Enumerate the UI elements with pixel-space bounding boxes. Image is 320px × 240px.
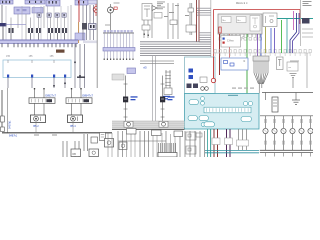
fuse F2 box inside — [237, 17, 247, 23]
amplifier sub-circuit box — [142, 4, 152, 21]
wire below connector X3 — [38, 33, 40, 40]
page F ribbon cable — [158, 143, 160, 153]
lamp L1 drop wire upper — [265, 116, 267, 128]
ECU circle pair lower — [201, 123, 205, 127]
connector dot right b — [79, 75, 81, 77]
gray label specks above ECU box — [232, 88, 236, 89]
terminal bar of B5.2 — [29, 98, 55, 104]
terminal ladder base box — [164, 88, 172, 95]
ECU pin pill 2 — [188, 116, 198, 121]
page B bottom sheet edge — [97, 128, 184, 130]
wire vertical right cluster 3 — [89, 5, 91, 40]
ladder mid rail — [260, 115, 313, 117]
svg-text:ElfB4TxT: ElfB4TxT — [82, 93, 93, 97]
lamp L6 lower connector — [310, 141, 312, 144]
wire blue pair vertical b — [274, 28, 276, 53]
wire below connector X5 — [57, 33, 59, 40]
wire above lamp symbol — [110, 4, 112, 7]
wire navy curve a — [290, 13, 297, 53]
relay page left edge — [7, 88, 9, 133]
page A top terminal-bus segment 4 — [75, 0, 88, 5]
bus segment 1 fuse ticks — [2, 1, 3, 3]
ignition switch symbol (red circle-X) — [93, 7, 99, 13]
svg-text:C Hnn: C Hnn — [227, 41, 234, 43]
op-amp triangle — [152, 6, 157, 11]
page F corner speck — [196, 133, 202, 137]
page F wire verticals mid — [117, 131, 119, 157]
wire above connector X1 — [10, 18, 12, 29]
page F label box 1 — [127, 129, 137, 135]
feed wires above B5.4 — [71, 89, 73, 98]
wire vertical fine set — [5, 6, 7, 40]
harness bundle stub mid right — [199, 32, 211, 34]
wire vertical from K1 pin 2 — [25, 14, 27, 40]
wire pink vertical — [229, 34, 231, 58]
lamp L4 bulb circle — [290, 128, 295, 133]
lamp L3 bulb circle — [281, 128, 286, 133]
wire vertical pair right — [189, 3, 191, 35]
ground splice comb header — [253, 56, 269, 61]
terminal ladder component — [165, 70, 167, 92]
sensor blue square 1 — [189, 69, 194, 73]
page E row lines — [302, 28, 313, 30]
branch 1 tick low — [124, 116, 128, 118]
lamp symbol circle top — [108, 7, 114, 13]
connector block right cluster — [82, 23, 87, 30]
wire teal vertical drop — [286, 19, 288, 54]
wire verticals under amplifier — [143, 20, 145, 38]
label speck center 2 — [175, 5, 179, 6]
branch 2 tick top — [161, 83, 165, 85]
lamp L2 connector tick — [274, 120, 276, 123]
ECU pin pill 3 — [199, 116, 209, 121]
footer speck 1 — [34, 135, 39, 136]
ECU circle pair upper — [201, 97, 205, 101]
wire above connector X5 — [57, 18, 59, 29]
junction box small left of wires 1 — [186, 132, 196, 140]
lamp L6 drop wire lower — [310, 134, 312, 150]
page F horizontal link — [118, 140, 166, 142]
page B header label specks — [114, 3, 120, 4]
relay B5.4 body — [68, 115, 83, 123]
junction box small left of wires 2 — [186, 146, 196, 154]
feed wire pair from bundle down a — [152, 56, 154, 122]
svg-text:B4B7b1: B4B7b1 — [9, 136, 18, 138]
harness box top tick 3 — [53, 60, 55, 63]
ground bars small upper — [290, 60, 299, 62]
page F wire verticals left group — [62, 141, 64, 157]
svg-text:155: 155 — [50, 55, 55, 58]
wire from battery bus — [2, 26, 4, 40]
relay B5.2 body — [31, 115, 46, 123]
relay K2 lavender box — [32, 8, 43, 14]
page F junction box DB — [71, 149, 81, 157]
terminal bar of B5.4 — [66, 98, 92, 104]
svg-text:B5.2: B5.2 — [33, 124, 39, 128]
relay K1 lavender box — [14, 7, 30, 14]
wire below connector X6 — [64, 33, 66, 40]
harness outline box (light blue) — [3, 60, 71, 78]
wires bar to relay B5.2 — [34, 103, 36, 115]
page F component column — [100, 133, 106, 141]
wire vertical right cluster 4 — [93, 5, 95, 40]
wire red supply vertical — [78, 0, 80, 22]
connector block right cluster 2 — [89, 24, 97, 30]
lamp L2 drop wire lower — [274, 134, 276, 150]
branch 2 tick mid — [161, 108, 165, 110]
page F small box upper — [91, 137, 98, 143]
wire red drop into sensor block — [213, 57, 215, 78]
junction box right cluster lavender top — [75, 33, 85, 40]
small relay far right upper — [277, 57, 284, 70]
inline connector purple pair — [225, 138, 233, 145]
svg-text:ElfB2TxT: ElfB2TxT — [45, 93, 56, 97]
lamp L2 drop wire upper — [274, 116, 276, 128]
switch S2 black square — [160, 97, 165, 103]
wire blue vertical — [260, 34, 262, 56]
lamp L3 lower connector — [283, 141, 285, 144]
wire teal horizontal — [277, 18, 313, 20]
lamp L4 lower connector — [292, 141, 294, 144]
lamp L5 bulb circle — [299, 128, 304, 133]
ground rail teal double bottom — [205, 150, 259, 152]
wire navy curve b — [293, 13, 300, 53]
svg-text:nfD: nfD — [143, 67, 147, 70]
lamp L4 drop wire lower — [292, 134, 294, 150]
lamp L5 lower connector — [301, 141, 303, 144]
wire blue pair vertical a — [270, 28, 272, 53]
ECU label top right — [228, 95, 238, 96]
wire dark red pair far right of page C — [196, 0, 198, 42]
fuse element red mark — [219, 27, 221, 33]
red terminal circle — [211, 78, 215, 82]
fuse holder S2 — [47, 13, 51, 17]
red indicator mark — [114, 7, 117, 9]
lamp L5 connector tick — [301, 120, 303, 123]
connector strip drops below — [214, 53, 216, 56]
wire below lamp symbol — [110, 13, 112, 33]
ground motor symbol box 2 — [159, 121, 168, 127]
wire gray group below ECU — [238, 129, 240, 150]
wire dark-red vertical (battery) — [219, 34, 221, 75]
battery bus bar (dark blue) — [0, 23, 7, 26]
pin label row under fuse box — [219, 38, 222, 41]
connector pair X4 — [48, 28, 50, 33]
wire maroon pair below ECU b — [217, 129, 219, 157]
fuse mark F2 on strip — [52, 1, 53, 4]
lamp L1 lower connector — [265, 141, 267, 144]
bus bar right gray segment — [83, 41, 97, 44]
ECU pin pill 1 — [189, 100, 199, 105]
harness box blue pin 1 — [7, 75, 9, 78]
component box right margin — [287, 62, 298, 71]
junction dots row — [144, 34, 145, 35]
terminal strip dark connector — [56, 50, 65, 53]
ground splice comb teeth — [253, 61, 255, 73]
connector pair X3 — [36, 28, 38, 33]
page B/C/D white sheet — [97, 0, 313, 157]
header rail terminal boxes — [104, 30, 106, 32]
svg-text:C: C — [244, 60, 246, 63]
fuse-relay box pin ticks — [219, 34, 221, 37]
connector pair X5 — [55, 28, 57, 33]
page F box with e symbol — [105, 139, 114, 148]
feed wire pair from bundle down b — [155, 56, 157, 122]
wire teal pair below ECU a — [207, 129, 209, 157]
fuse mark F1 on strip — [49, 1, 50, 4]
connector box right — [186, 25, 196, 32]
inline connector maroon pair — [212, 138, 220, 145]
wire vertical x44 — [43, 6, 45, 28]
svg-text:Omn 1 ×: Omn 1 × — [236, 1, 248, 5]
connector pair X1 — [8, 28, 10, 33]
wire teal pair below ECU b — [210, 129, 212, 157]
page B left sheet edge — [96, 0, 98, 130]
connector pair X2 — [28, 28, 30, 33]
wire purple pair below ECU b — [229, 129, 231, 157]
svg-text:DB: DB — [73, 153, 77, 156]
ladder top rail — [262, 92, 313, 94]
wire above connector X4 — [50, 18, 52, 29]
ladder bottom ground rail double — [260, 149, 313, 151]
page A top terminal-bus segment 5 — [88, 0, 97, 4]
wires below harness box — [7, 78, 9, 89]
wire drop from top rail — [265, 93, 267, 101]
wire vertical left — [1, 5, 3, 23]
branch 1 tick top — [124, 83, 128, 85]
page E dark component box — [302, 18, 310, 24]
bus segment 2 fuse ticks — [29, 1, 30, 3]
lamp L3 drop wire lower — [283, 134, 285, 150]
wire violet vertical — [257, 34, 259, 56]
ground symbol right — [292, 99, 300, 101]
lamp L2 bulb circle — [272, 128, 277, 133]
sensor small comp — [200, 77, 207, 83]
main distribution bus bar (lavender) — [0, 40, 78, 43]
ECU block (teal filled box) — [185, 94, 260, 130]
page F label box 3 — [174, 131, 183, 137]
wire tan supply vertical lower — [78, 22, 80, 43]
wire magenta vertical — [293, 11, 295, 30]
ground bars below right margin box — [290, 73, 297, 75]
wire green vertical — [246, 34, 248, 94]
label speck center — [169, 12, 174, 13]
label speck center 3 — [164, 16, 168, 17]
resistor box center — [170, 20, 177, 25]
outer bus connector box 2 — [1, 127, 5, 132]
fuse holder S1 — [37, 13, 41, 17]
page A top terminal-bus segment 2 — [25, 0, 45, 4]
page D left sheet edge — [210, 0, 212, 157]
page E header text specks — [303, 1, 312, 2]
harness box top tick 1 — [7, 60, 9, 63]
bus terminal drops — [1, 43, 3, 47]
svg-text:B4B7b1: B4B7b1 — [9, 120, 12, 129]
lamp L6 bulb circle — [308, 128, 313, 133]
lamp L4 connector tick — [292, 120, 294, 123]
harness box blue pin 3 — [53, 75, 55, 78]
blue pin label below harness box — [44, 91, 50, 92]
wire stub above ignition switch — [95, 4, 97, 7]
lamp L3 connector tick — [283, 120, 285, 123]
svg-text:B5.4: B5.4 — [70, 124, 76, 128]
terminal ladder blue label — [163, 96, 170, 97]
wire below connector X1 — [10, 33, 12, 40]
lamp L6 drop wire upper — [310, 116, 312, 128]
harness bundle main (7 gray wires) — [140, 41, 211, 43]
wire below connector X4 — [50, 33, 52, 40]
lamp L2 lower connector — [274, 141, 276, 144]
harness box blue pin 4 — [64, 75, 66, 78]
connector pair X6 — [62, 28, 64, 33]
branch 1 tick mid — [124, 108, 128, 110]
ECU circle pair right — [243, 101, 247, 105]
connector dash right — [77, 77, 85, 78]
sensor block outline (white box) — [185, 57, 216, 94]
relay page outer bus wire — [1, 90, 3, 131]
wire below connector X2 — [30, 33, 32, 40]
lamp L1 connector tick — [265, 120, 267, 123]
fuse mark F3 on strip — [56, 1, 57, 4]
fuse F1 box inside — [222, 17, 232, 23]
wire vertical x71 — [70, 5, 72, 40]
branch 2 tick low — [161, 116, 165, 118]
harness box blue pin 2 — [31, 75, 33, 78]
label speck right — [185, 15, 189, 16]
connector gray box lower left — [112, 74, 124, 80]
fuse holder S3 — [55, 13, 59, 17]
wire vertical right cluster 1 — [82, 5, 84, 40]
wire vertical right cluster 2 — [86, 5, 88, 40]
svg-text:C: C — [242, 37, 244, 40]
switch S1 blue label — [131, 96, 138, 97]
page F wire pair tall — [83, 134, 85, 151]
sensor contact dark pair — [187, 84, 192, 89]
lamp L1 bulb circle — [263, 128, 268, 133]
lamp L6 connector tick — [310, 120, 312, 123]
page A top terminal-bus segment 3 (fuse strip) — [46, 0, 60, 6]
control module box with connectors — [221, 36, 241, 48]
fuse-relay box outline — [218, 14, 262, 34]
outer bus connector box 1 — [1, 116, 5, 122]
wire below relay B5.4 — [72, 123, 74, 133]
relay page sheet — [6, 88, 112, 133]
footer speck 2 — [52, 135, 57, 136]
wire above connector X3 — [38, 18, 40, 29]
lamp L1 drop wire lower — [265, 134, 267, 150]
sensor blue square 2 — [189, 75, 194, 79]
connector strip baseline — [213, 52, 310, 54]
page F label box 2 — [152, 130, 162, 136]
wire verticals center group — [167, 3, 169, 39]
page E sheet edge top right — [300, 0, 302, 46]
capacitor mark right — [188, 8, 194, 12]
wire down from right margin box — [292, 78, 294, 93]
wire stub below ignition switch — [95, 12, 97, 16]
wire above connector X2 — [30, 18, 32, 29]
page F wire verticals fine — [107, 132, 109, 157]
bus segment 4 fuse ticks — [78, 1, 79, 3]
harness bundle lower pair — [140, 60, 174, 62]
lamp ladder page sheet — [260, 88, 313, 157]
page F motor box with circle — [119, 142, 127, 150]
ECU internal terminal bar — [204, 107, 251, 113]
ladder bottom stubs — [265, 153, 267, 157]
page A top terminal-bus segment 1 — [0, 0, 13, 4]
page F junction box C — [89, 149, 99, 157]
wires bar to relay B5.4 — [71, 103, 73, 115]
harness box top tick 2 — [31, 60, 33, 63]
wire below relay B5.2 — [35, 123, 37, 133]
relay K1 inner contact marks — [17, 9, 20, 11]
relay lavender box lower — [127, 68, 136, 74]
lamp L5 drop wire lower — [301, 134, 303, 150]
power feed red vertical left — [213, 10, 215, 77]
page F ribbon connector box — [158, 153, 177, 158]
inline connector gray group — [237, 140, 249, 146]
instrument sub-box near page B top — [154, 13, 162, 19]
component box under amplifier — [142, 25, 150, 30]
wire vertical x307 right margin — [306, 53, 308, 93]
wire purple pair below ECU a — [226, 129, 228, 157]
notes text block — [157, 1, 165, 4]
connector box blue-bordered (mid) — [221, 58, 248, 70]
switch S2 blue label — [168, 96, 175, 97]
wire branch column 2 — [162, 76, 164, 122]
lavender link line from battery bar — [7, 24, 27, 26]
relay small box top right — [263, 13, 277, 27]
switch S1 black square — [123, 97, 128, 103]
wire bright green vertical — [281, 20, 283, 53]
wire node dot 2 — [64, 83, 66, 85]
relay page bottom edge — [2, 132, 112, 134]
power feed red bus horizontal — [214, 9, 301, 11]
resistor component vertical — [272, 97, 278, 112]
wire maroon pair below ECU a — [213, 129, 215, 157]
terminal strip lavender bar — [103, 48, 135, 52]
lamp L4 drop wire upper — [292, 116, 294, 128]
wire vertical from K1 pin 1 — [17, 14, 19, 28]
fuse holder S4 — [62, 13, 66, 17]
wire branch column 1 — [125, 76, 127, 122]
ground splice tail wires — [258, 84, 260, 94]
wire olive vertical — [265, 27, 267, 53]
page background — [0, 0, 313, 157]
svg-text:155: 155 — [6, 55, 11, 58]
feed wires above B5.2 — [34, 89, 36, 98]
connector strip row (page D mid) — [214, 49, 216, 52]
ground splice funnel — [254, 73, 259, 84]
wire drops below terminal strip — [103, 51, 105, 59]
wire node dot — [53, 85, 55, 87]
harness bundle stub upper right — [197, 7, 211, 9]
wires right of harness box — [74, 44, 76, 89]
wire above connector X6 — [64, 18, 66, 29]
ground symbol stem — [295, 93, 297, 101]
lamp L3 drop wire upper — [283, 116, 285, 128]
svg-text:155: 155 — [29, 55, 34, 58]
ECU pin pill right bottom — [241, 117, 252, 122]
sensor circle contacts — [201, 87, 205, 91]
ground motor symbol box 1 — [124, 121, 133, 127]
lamp L5 drop wire upper — [301, 116, 303, 128]
ECU pin pill bottom — [204, 122, 215, 127]
relay box inside — [250, 16, 260, 32]
power feed red vertical right corner — [299, 10, 301, 25]
wire drops from header rail — [103, 33, 105, 48]
connector dot right a — [74, 62, 76, 64]
header rail line — [103, 32, 134, 34]
